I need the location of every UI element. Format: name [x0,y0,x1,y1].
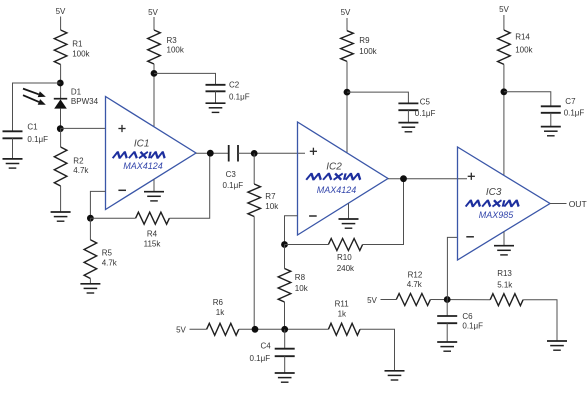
resistor R13 [490,294,523,306]
capacitor C5 [398,103,418,110]
svg-text:100k: 100k [72,50,90,59]
svg-text:100k: 100k [167,46,185,55]
wire C1 to ground [12,138,14,159]
svg-text:R2: R2 [73,156,84,165]
MAXIM logo IC2 [306,173,362,179]
wire node to R10 [285,244,329,246]
svg-text:0.1μF: 0.1μF [415,109,436,118]
node R12/C6/IC3- junction [444,296,451,303]
svg-text:1k: 1k [216,308,225,317]
capacitor C1 [3,131,23,138]
svg-text:4.7k: 4.7k [73,166,89,175]
ground IC1 [144,192,164,201]
svg-text:0.1μF: 0.1μF [27,135,48,144]
wire junction to C7 [504,92,551,107]
svg-text:5V: 5V [367,296,377,305]
resistor R10 [328,239,362,251]
svg-text:5V: 5V [341,8,351,17]
svg-text:C6: C6 [462,312,473,321]
svg-text:IC3: IC3 [486,187,502,198]
capacitor C3 (series) [229,145,238,162]
svg-text:5V: 5V [148,8,158,17]
svg-text:0.1μF: 0.1μF [564,109,585,118]
resistor R6 [207,323,239,335]
node C3/R7 junction [251,150,258,157]
ground IC3 [494,246,514,255]
svg-text:R3: R3 [167,36,178,45]
wire IC1 to ground [153,179,155,192]
IC1 - input symbol [118,189,126,191]
wire IC3 output [550,203,567,205]
node D1/R2/IC1+ junction [57,125,64,132]
svg-text:240k: 240k [337,264,355,273]
wire node to IC3 - input [447,237,457,299]
IC2 - input symbol [309,215,317,217]
svg-text:R14: R14 [515,33,530,42]
IC3 + input symbol [468,173,475,180]
ground C2 [206,103,226,112]
MAXIM logo IC1 [113,152,167,158]
ground C1 [3,159,23,168]
capacitor C2 [206,85,226,92]
svg-text:R1: R1 [72,39,83,48]
svg-text:0.1μF: 0.1μF [462,322,483,331]
wire C5 to ground [407,110,409,122]
IC2 + input symbol [310,148,317,155]
wire R12 to R13 [430,299,490,301]
svg-text:C3: C3 [226,170,237,179]
svg-text:115k: 115k [144,240,162,249]
wire node to R7 [253,153,255,184]
resistor R14 [498,30,511,64]
ground IC2 [339,219,359,228]
svg-text:MAX985: MAX985 [479,210,515,220]
resistor R4 [136,212,170,224]
photodiode D1 [54,99,67,109]
capacitor C6 [437,316,457,323]
svg-text:5V: 5V [56,7,66,16]
wire IC1 output to C3 [196,152,229,154]
wire node to R2 [60,129,62,147]
wire 5V to R1 [60,17,62,31]
resistor R9 [341,31,354,62]
wire 5V to R3 [153,17,155,30]
node rail/R7 junction [252,326,259,333]
wire 5V to R6 [190,328,207,330]
wire node to IC1 + input [60,127,105,129]
svg-text:BPW34: BPW34 [71,97,99,106]
light arrow 1 [23,89,46,98]
ground C4 [275,373,295,382]
wire IC1 - input to feedback node [90,191,105,218]
wire node to R4 [90,217,135,219]
wire junction to C2 [154,73,216,84]
svg-text:4.7k: 4.7k [102,258,118,267]
ground C6 [437,342,457,351]
wire R14 to IC3 supply point [503,64,505,175]
op-amp IC2 triangle [298,122,389,235]
resistor R7 [248,184,261,217]
wire R9 to IC2 supply point [346,61,348,152]
capacitor C4 [275,349,295,357]
wire junction to C1 [13,83,61,131]
node R1/D1/C1 junction [57,80,64,87]
node IC2 output junction [400,175,407,182]
wire IC3 to ground [503,232,505,246]
svg-text:R8: R8 [295,273,306,282]
wire R2 to ground [60,186,62,212]
svg-text:5V: 5V [499,5,509,14]
wire IC2 output to IC3 + input [388,178,467,180]
wire IC2 to ground [348,203,350,219]
svg-text:R9: R9 [359,36,370,45]
wire R10 to IC2 output [363,179,404,245]
node rail/R8/C4 junction [281,326,288,333]
wire 5V to R9 [346,18,348,31]
wire C6 to ground [446,323,448,342]
svg-text:5.1k: 5.1k [497,281,513,290]
wire C4 to ground [284,356,286,373]
ground R11 [385,371,405,380]
wire node to C4 [284,329,286,348]
svg-text:R7: R7 [265,192,276,201]
IC3 - input symbol [466,236,474,238]
op-amp IC3 triangle [458,147,551,260]
ground R2 [51,212,71,221]
resistor R12 [396,294,430,306]
wire 5V to R14 [503,15,505,30]
resistor R11 [328,323,360,335]
wire D1 to node [60,109,62,129]
svg-text:100k: 100k [359,47,377,56]
resistor R1 [54,30,67,65]
svg-text:0.1μF: 0.1μF [223,181,244,190]
wire 5V to R12 [381,299,397,301]
capacitor C7 [541,106,561,113]
wire R3 to IC1 supply point [153,64,155,127]
svg-text:R4: R4 [147,229,158,238]
resistor R3 [148,30,161,64]
svg-text:C2: C2 [229,81,240,90]
op-amp IC1 triangle [106,97,197,210]
svg-text:C1: C1 [27,123,38,132]
svg-text:100k: 100k [515,46,533,55]
svg-text:0.1μF: 0.1μF [250,354,271,363]
svg-text:R6: R6 [213,298,224,307]
resistor R2 [54,147,67,186]
svg-text:R5: R5 [102,249,113,258]
svg-text:R12: R12 [408,271,423,280]
wire R7 to bottom rail [253,217,255,330]
resistor R5 [84,240,97,279]
svg-text:D1: D1 [71,88,82,97]
node R10/R8 junction [281,241,288,248]
wire C7 to ground [550,113,552,127]
svg-text:5V: 5V [176,326,186,335]
svg-text:C5: C5 [420,98,431,107]
svg-text:R10: R10 [337,253,352,262]
node R4/R5 junction [87,215,94,222]
svg-text:10k: 10k [295,284,309,293]
IC1 + input symbol [118,125,125,132]
wire node to R8 [284,245,286,269]
node R9/C5 junction [344,89,351,96]
wire R5 to ground [89,279,91,284]
ground R5 [80,284,100,293]
node R14/C7 junction [501,88,508,95]
node R3/C2 junction [151,70,158,77]
svg-text:IC1: IC1 [134,138,150,149]
wire C2 to ground [215,91,217,103]
wire C3 to IC2 + input [238,152,305,154]
svg-text:IC2: IC2 [326,161,342,172]
svg-text:10k: 10k [265,202,279,211]
ground C5 [398,123,418,132]
svg-text:C7: C7 [565,97,576,106]
svg-text:R13: R13 [497,269,512,278]
svg-text:C4: C4 [261,342,272,351]
svg-text:MAX4124: MAX4124 [123,161,163,171]
svg-text:4.7k: 4.7k [407,280,423,289]
MAXIM logo IC3 [466,200,521,206]
wire R1 to D1 [60,65,62,99]
ground C7 [541,127,561,136]
wire bottom rail [239,328,329,330]
wire R8 to bottom rail [284,302,286,329]
svg-text:R11: R11 [335,300,350,309]
wire node to C6 [446,300,448,317]
ground R13 [547,341,567,350]
svg-text:0.1μF: 0.1μF [229,93,250,102]
wire R11 to ground [360,329,395,371]
node IC1 output junction [207,150,214,157]
wire node to R5 [89,218,91,240]
resistor R8 [278,269,291,303]
svg-text:1k: 1k [338,309,347,318]
light arrow 2 [23,95,46,105]
wire R4 to IC1 output [169,153,209,218]
svg-text:OUT: OUT [569,199,587,209]
wire R13 to ground [523,300,557,341]
svg-text:MAX4124: MAX4124 [317,185,357,195]
wire IC2 - input to feedback node [285,216,298,245]
wire junction to C5 [347,92,408,103]
